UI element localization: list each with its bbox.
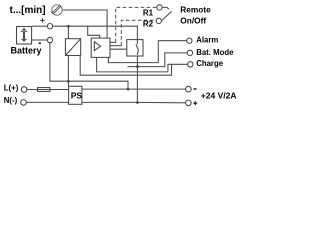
- converter box1: [65, 39, 80, 56]
- wire minus bus: [82, 88, 186, 90]
- wire A box2 to R1: [110, 41, 116, 43]
- fuse: [38, 88, 51, 92]
- wire C box2 to box3: [110, 48, 127, 50]
- wire box2 feed: [88, 26, 100, 38]
- PS box: [69, 86, 83, 104]
- terminal Bat Mode: [187, 50, 192, 55]
- wire battery plus to terminal: [32, 25, 48, 27]
- svg-text:R2: R2: [143, 20, 154, 29]
- svg-text:On/Off: On/Off: [180, 15, 206, 25]
- wire box1 right stub rail: [80, 56, 171, 76]
- svg-text:Charge: Charge: [196, 59, 224, 68]
- svg-text:Bat. Mode: Bat. Mode: [196, 48, 234, 57]
- switch remote blade: [162, 7, 172, 20]
- wire box2 left stub rail charge: [97, 57, 168, 72]
- wire B box2 to R2: [110, 45, 121, 47]
- wire L input: [27, 89, 69, 91]
- label plus battery: [40, 18, 44, 22]
- terminal R2: [156, 18, 161, 23]
- wire box1 feed: [67, 26, 69, 39]
- svg-text:R1: R1: [143, 8, 154, 17]
- label minus out: [194, 88, 197, 90]
- terminal plus out: [186, 100, 192, 106]
- potentiometer: [51, 5, 62, 15]
- wire bat mode rail: [128, 53, 188, 67]
- node plus bus box1: [67, 25, 70, 28]
- terminal minus out: [186, 86, 192, 92]
- label minus battery: [39, 42, 41, 44]
- battery box: [17, 27, 32, 45]
- svg-text:+24 V/2A: +24 V/2A: [201, 90, 237, 100]
- terminal battery minus: [47, 37, 52, 42]
- svg-text:N(-): N(-): [4, 96, 18, 105]
- svg-text:Remote: Remote: [180, 5, 211, 15]
- wire bottom plus bus: [26, 101, 185, 103]
- node batmode rail: [136, 65, 139, 68]
- wire charge riser: [168, 64, 188, 72]
- wire box2 right stub rail alarm: [108, 41, 186, 63]
- terminal R1: [157, 5, 162, 10]
- wire box1 left stub to PS: [67, 56, 69, 87]
- terminal N: [21, 100, 27, 106]
- control box2: [91, 38, 110, 57]
- wire pot to control box: [62, 10, 107, 38]
- label plus out: [193, 101, 197, 105]
- terminal battery plus: [47, 24, 52, 29]
- wire remote R2 dashed: [121, 20, 156, 45]
- wire battery minus down and right: [50, 43, 128, 89]
- wire remote R1 dashed: [116, 7, 157, 42]
- switch box3: [127, 40, 143, 56]
- junction dots: [67, 25, 139, 104]
- svg-text:PS: PS: [71, 90, 83, 100]
- wire plus bus: [53, 26, 138, 39]
- terminal Alarm: [187, 38, 192, 43]
- wire switch output vertical: [136, 56, 138, 103]
- wire battery minus to terminal: [32, 39, 48, 41]
- node bottom bus join: [136, 101, 139, 104]
- terminal Charge: [188, 62, 193, 67]
- svg-text:Alarm: Alarm: [196, 36, 218, 45]
- svg-text:t...[min]: t...[min]: [10, 5, 46, 16]
- battery symbol: [21, 28, 28, 42]
- node minus bus join: [127, 88, 130, 91]
- svg-text:Battery: Battery: [11, 46, 42, 56]
- node minus stub crossing: [67, 80, 70, 83]
- svg-text:L(+): L(+): [4, 84, 19, 93]
- terminal L: [21, 87, 27, 93]
